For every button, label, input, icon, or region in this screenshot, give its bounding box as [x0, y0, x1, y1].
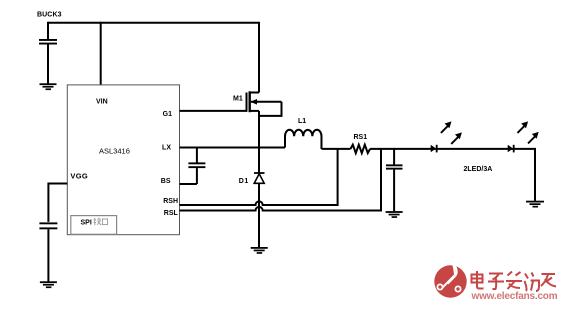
svg-text:BUCK3: BUCK3	[37, 12, 62, 19]
LED D3	[508, 121, 539, 152]
wire BS	[180, 183, 197, 185]
svg-text:BS: BS	[161, 178, 171, 185]
svg-text:ASL3416: ASL3416	[99, 147, 130, 156]
svg-text:VGG: VGG	[70, 172, 88, 181]
glyph kou	[102, 219, 107, 225]
wire RSL with hop over diode line	[180, 149, 382, 211]
svg-text:LX: LX	[162, 145, 171, 152]
svg-text:SPI: SPI	[81, 220, 92, 227]
wire M1 body loop	[259, 102, 282, 116]
wire top rail from BUCK3 to M1 drain	[48, 22, 259, 24]
inductor L1	[285, 118, 321, 149]
glyph jie	[93, 218, 101, 226]
ground (output cap)	[386, 211, 403, 218]
wire G1 to gate	[180, 110, 247, 112]
ground (VGG cap)	[40, 281, 57, 288]
wire RSH with hop over diode line	[180, 149, 338, 205]
svg-text:L1: L1	[298, 118, 306, 125]
LED D2	[431, 121, 462, 152]
ground (input cap)	[40, 83, 57, 90]
wire M1 source drop to LX node	[258, 111, 260, 149]
wire VGG to cap	[48, 184, 67, 222]
wire right end drop	[534, 148, 536, 201]
wire output line	[322, 148, 351, 150]
SPI interface box	[71, 216, 117, 235]
ground (diode)	[251, 247, 268, 254]
svg-text:D1: D1	[239, 178, 249, 185]
wire M1 drain riser	[258, 22, 260, 93]
watermark logo	[434, 263, 466, 298]
transistor M1	[233, 91, 282, 112]
svg-text:RS1: RS1	[354, 134, 368, 141]
capacitor C2 (VGG)	[39, 222, 57, 281]
svg-text:RSH: RSH	[163, 198, 178, 205]
wire VIN drop	[100, 22, 102, 85]
capacitor C1 input	[39, 22, 57, 84]
resistor RS1	[351, 134, 371, 153]
ground (right end)	[526, 201, 544, 208]
capacitor C3 bootstrap	[188, 148, 205, 185]
svg-text:www.elecfans.com: www.elecfans.com	[471, 291, 558, 302]
capacitor C4 output	[386, 149, 403, 211]
svg-text:VIN: VIN	[96, 99, 108, 106]
watermark text dian zi fa shao you	[472, 271, 557, 291]
svg-text:2LED/3A: 2LED/3A	[464, 166, 493, 173]
svg-text:RSL: RSL	[164, 210, 179, 217]
diode D1	[239, 148, 265, 248]
wire LX	[180, 147, 286, 149]
svg-text:G1: G1	[163, 111, 172, 118]
wire output line to LEDs and end	[370, 148, 535, 150]
svg-text:M1: M1	[233, 96, 243, 103]
op-amp U1 ASL3416 body	[67, 85, 179, 235]
